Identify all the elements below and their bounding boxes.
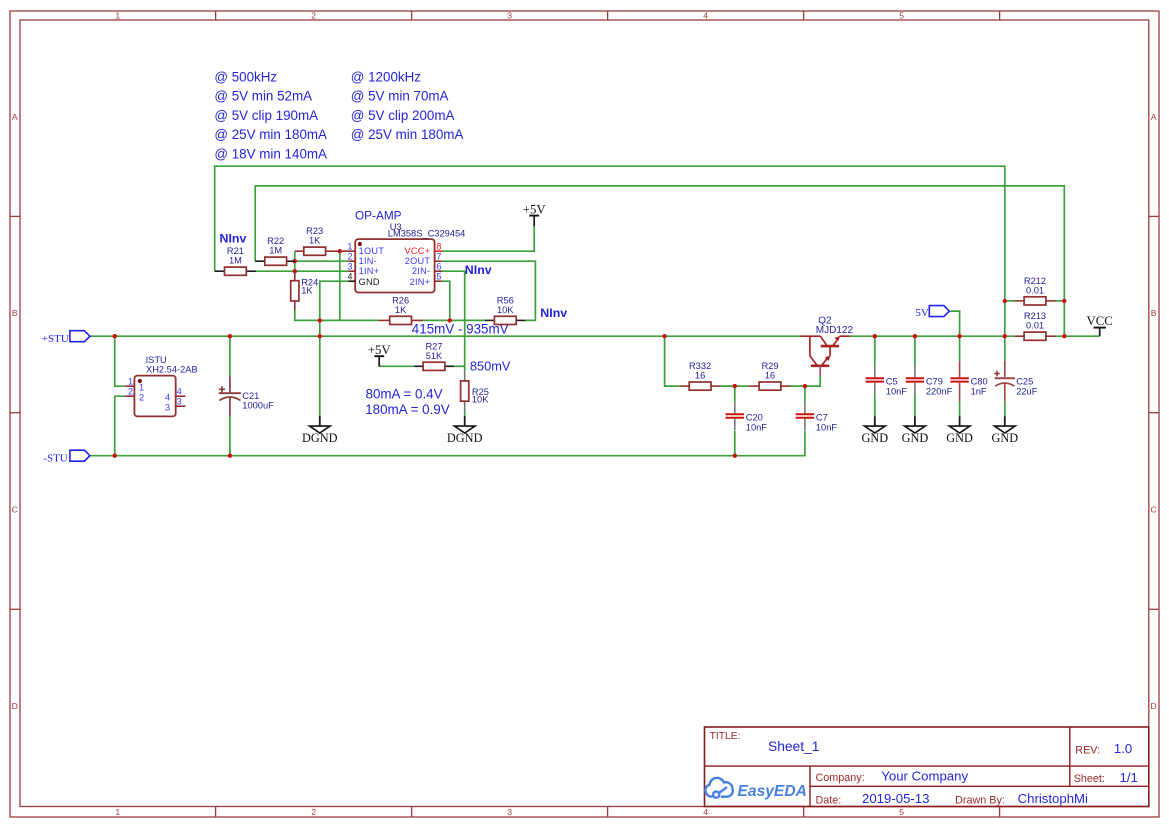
- resistor R25: [461, 371, 490, 411]
- svg-text:GND: GND: [359, 277, 380, 287]
- svg-text:@ 5V clip 190mA: @ 5V clip 190mA: [214, 108, 318, 123]
- wire C5 leads: [874, 336, 876, 416]
- svg-text:R26: R26: [392, 295, 409, 305]
- svg-text:LM358S_C329454: LM358S_C329454: [388, 228, 466, 238]
- svg-text:2019-05-13: 2019-05-13: [862, 791, 929, 806]
- svg-text:10nF: 10nF: [886, 387, 908, 397]
- svg-text:Your Company: Your Company: [881, 769, 968, 784]
- junction +STU bus / C21: [228, 334, 232, 338]
- ground GND at x=874.8: [861, 416, 888, 445]
- U3 pin 3: [347, 261, 355, 271]
- svg-text:A: A: [1151, 112, 1157, 122]
- svg-text:R21: R21: [227, 246, 244, 256]
- resistor R22: [255, 236, 295, 265]
- svg-text:1K: 1K: [309, 236, 321, 246]
- U3 pin names left: [359, 246, 385, 287]
- junction bus / C80 / 5V: [957, 334, 961, 338]
- U3 pin names right: [405, 246, 431, 287]
- svg-text:1IN-: 1IN-: [359, 256, 377, 266]
- svg-text:22uF: 22uF: [1016, 387, 1038, 397]
- svg-text:220nF: 220nF: [926, 387, 953, 397]
- junction R332/R29/C20 node: [733, 384, 737, 388]
- wire main bus right of Q2: [850, 335, 1015, 337]
- ISTU pin 1: [125, 376, 144, 392]
- junction R21/R24 node: [293, 269, 297, 273]
- svg-text:3: 3: [177, 396, 182, 406]
- wire R24 bottom to R26: [295, 310, 378, 320]
- U3 designator labels: [388, 222, 466, 239]
- wire pin1 feedback vertical: [339, 251, 341, 320]
- svg-text:@ 5V min 52mA: @ 5V min 52mA: [214, 89, 312, 104]
- svg-text:16: 16: [695, 371, 705, 381]
- svg-text:R22: R22: [267, 236, 284, 246]
- svg-text:180mA = 0.9V: 180mA = 0.9V: [365, 402, 450, 417]
- title block Company: [816, 769, 969, 784]
- svg-text:R56: R56: [497, 295, 514, 305]
- U3 pin 4: [347, 271, 355, 281]
- U3 pin 2: [347, 251, 355, 261]
- resistor R213: [1014, 311, 1055, 340]
- svg-text:4: 4: [703, 11, 708, 21]
- svg-text:5V: 5V: [915, 307, 929, 319]
- svg-text:VCC: VCC: [1087, 314, 1113, 328]
- svg-text:MJD122: MJD122: [816, 325, 854, 336]
- wire R332 to R29: [721, 385, 750, 387]
- wire pin5 wire: [442, 281, 450, 320]
- svg-text:10nF: 10nF: [746, 423, 768, 433]
- wire ISTU pin2 wire: [115, 396, 126, 456]
- capacitor C5: [866, 366, 908, 397]
- junction R24-R26 wire / GND branch: [318, 318, 322, 322]
- resistor R23: [295, 226, 340, 255]
- net flag +STU: [42, 331, 90, 346]
- svg-text:1: 1: [115, 11, 120, 21]
- capacitor C20: [726, 402, 768, 433]
- junction R212 left node: [1003, 299, 1007, 303]
- svg-text:@ 25V min 180mA: @ 25V min 180mA: [214, 127, 327, 142]
- wire C80 leads: [959, 336, 961, 416]
- svg-text:2: 2: [311, 11, 316, 21]
- svg-text:1: 1: [115, 807, 120, 817]
- ISTU designator labels: [146, 355, 198, 374]
- svg-text:GND: GND: [991, 431, 1018, 445]
- ground GND at x=959.6: [946, 416, 973, 445]
- capacitor C80: [950, 361, 987, 402]
- junction +STU bus / ISTU pin1: [113, 334, 117, 338]
- svg-text:C: C: [12, 505, 18, 515]
- junction bus / R213 right: [1062, 334, 1066, 338]
- svg-text:C7: C7: [816, 413, 828, 423]
- svg-text:2: 2: [128, 386, 133, 396]
- svg-text:@ 18V min 140mA: @ 18V min 140mA: [214, 146, 327, 161]
- wire C21 leads: [229, 336, 231, 456]
- ground GND at x=914.9: [902, 416, 929, 445]
- wire R27 to R25 node: [454, 365, 465, 367]
- svg-text:R213: R213: [1024, 311, 1046, 321]
- ground GND at x=1004.8: [991, 416, 1018, 445]
- ISTU pin 4: [165, 386, 185, 402]
- U3 pin 7: [435, 251, 442, 261]
- svg-text:3: 3: [507, 11, 512, 21]
- svg-text:XH2.54-2AB: XH2.54-2AB: [146, 365, 198, 375]
- resistor R24: [291, 271, 319, 310]
- svg-text:GND: GND: [946, 431, 973, 445]
- resistor R21: [215, 246, 256, 275]
- net flag 5V: [915, 306, 949, 319]
- capacitor C7: [796, 402, 838, 433]
- svg-text:5: 5: [436, 271, 441, 281]
- svg-text:R23: R23: [306, 226, 323, 236]
- wire -STU bus: [90, 431, 805, 456]
- svg-text:1M: 1M: [229, 256, 242, 266]
- wire R212 right: [1056, 300, 1065, 302]
- wire R212 left: [1005, 300, 1015, 302]
- svg-text:C79: C79: [926, 377, 943, 387]
- svg-text:10K: 10K: [497, 305, 514, 315]
- U3 pin 1: [340, 241, 355, 251]
- svg-text:2: 2: [139, 392, 144, 402]
- wire pin6 to 850mV node: [442, 271, 465, 371]
- svg-text:4: 4: [347, 271, 352, 281]
- junction -STU bus / C21: [228, 454, 232, 458]
- svg-text:VCC+: VCC+: [405, 246, 431, 256]
- resistor R27: [414, 341, 454, 370]
- wire R21 to pin3: [256, 270, 348, 272]
- svg-text:@ 5V min 70mA: @ 5V min 70mA: [351, 89, 449, 104]
- svg-text:DGND: DGND: [447, 431, 483, 445]
- wire inner loop to R212/R213: [255, 186, 1064, 336]
- wire pin4 GND to DGND: [320, 281, 349, 416]
- svg-text:Company:: Company:: [816, 772, 865, 784]
- wire ISTU pin1 wire: [115, 336, 126, 386]
- wire R26 to R56: [423, 319, 485, 321]
- junction -STU bus / ISTU pin2: [113, 454, 117, 458]
- svg-text:4: 4: [703, 807, 708, 817]
- title block TITLE: [710, 731, 820, 754]
- svg-text:1: 1: [128, 376, 133, 386]
- U3 pin 5: [435, 271, 442, 281]
- svg-text:1OUT: 1OUT: [359, 246, 385, 256]
- svg-text:EasyEDA: EasyEDA: [738, 783, 807, 800]
- ISTU pin 3: [165, 396, 185, 412]
- svg-text:@ 1200kHz: @ 1200kHz: [351, 70, 421, 85]
- svg-text:1: 1: [139, 382, 144, 392]
- svg-text:1: 1: [347, 241, 352, 251]
- svg-text:4: 4: [177, 386, 182, 396]
- wire R29 to Q2 emitter: [791, 376, 821, 386]
- op-amp U3 LM358S_C329454 body: [355, 239, 434, 292]
- svg-text:6: 6: [436, 261, 441, 271]
- ground DGND at x=464.7: [447, 416, 483, 445]
- wire 5V flag wire: [950, 311, 959, 336]
- wire C25 bottom: [1004, 401, 1006, 416]
- svg-text:5: 5: [899, 11, 904, 21]
- svg-text:-STU: -STU: [43, 453, 68, 465]
- wire C20 bottom: [734, 431, 736, 456]
- wire main bus to VCC: [1056, 335, 1100, 337]
- wire C20 top: [734, 386, 736, 402]
- wire outer feedback loop NInv: [215, 166, 1005, 361]
- svg-text:16: 16: [765, 371, 775, 381]
- svg-text:51K: 51K: [426, 351, 443, 361]
- svg-text:TITLE:: TITLE:: [710, 731, 741, 742]
- svg-text:C5: C5: [886, 377, 898, 387]
- frame column ticks top/bottom: [216, 11, 1000, 817]
- svg-text:C21: C21: [242, 391, 259, 401]
- svg-text:1K: 1K: [301, 286, 313, 296]
- U3 pin 6: [435, 261, 442, 271]
- svg-text:REV:: REV:: [1075, 745, 1100, 757]
- capacitor C25 22uF polarized: [994, 361, 1038, 401]
- resistor R332: [680, 361, 721, 390]
- resistor R56: [485, 295, 526, 324]
- wire R23 left vertical: [294, 251, 296, 271]
- svg-text:80mA = 0.4V: 80mA = 0.4V: [366, 386, 443, 401]
- wire C7 top: [804, 386, 806, 402]
- svg-text:ChristophMi: ChristophMi: [1018, 791, 1088, 806]
- svg-text:10K: 10K: [472, 395, 489, 405]
- resistor R29: [749, 361, 790, 390]
- wire +5V to R27: [379, 365, 414, 367]
- junction +STU bus / DGND branch: [318, 334, 322, 338]
- svg-text:C80: C80: [971, 377, 988, 387]
- svg-text:2: 2: [311, 807, 316, 817]
- svg-text:0.01: 0.01: [1026, 285, 1044, 295]
- svg-text:@ 5V clip 200mA: @ 5V clip 200mA: [351, 108, 455, 123]
- wire pin7 loop to R56: [442, 261, 536, 320]
- svg-text:Drawn By:: Drawn By:: [955, 795, 1005, 807]
- svg-text:8: 8: [436, 241, 441, 251]
- U3 pin 8: [435, 241, 442, 251]
- title block Sheet: [1074, 770, 1138, 785]
- svg-text:@ 500kHz: @ 500kHz: [214, 70, 277, 85]
- frame row ticks left/right: [10, 216, 1159, 609]
- junction bus / C25 / R213: [1003, 334, 1007, 338]
- wire C79 leads: [914, 336, 916, 416]
- svg-text:NInv: NInv: [465, 263, 492, 277]
- svg-text:3: 3: [165, 402, 170, 412]
- svg-text:GND: GND: [902, 431, 929, 445]
- svg-text:R332: R332: [689, 361, 711, 371]
- svg-text:0.01: 0.01: [1026, 321, 1044, 331]
- resistor R212: [1014, 276, 1055, 305]
- junction R26-R56 wire / pin5: [448, 318, 452, 322]
- svg-text:D: D: [12, 701, 18, 711]
- net flag -STU: [43, 450, 90, 465]
- wire R22 to pin2: [295, 260, 349, 262]
- svg-text:5: 5: [899, 807, 904, 817]
- svg-text:1/1: 1/1: [1120, 770, 1138, 785]
- svg-text:+STU: +STU: [42, 333, 69, 345]
- svg-text:2: 2: [347, 251, 352, 261]
- title block REV: [1075, 741, 1132, 756]
- power flag +5V at x=379.2: [368, 343, 392, 367]
- svg-text:1nF: 1nF: [971, 387, 987, 397]
- svg-text:10nF: 10nF: [816, 423, 838, 433]
- wire main +STU bus left: [90, 335, 800, 337]
- junction R23 / pin1 node: [338, 249, 342, 253]
- svg-text:4: 4: [165, 393, 170, 403]
- svg-text:850mV: 850mV: [470, 358, 511, 373]
- svg-text:A: A: [12, 112, 18, 122]
- junction R22/R23 node: [293, 259, 297, 263]
- svg-text:R212: R212: [1024, 276, 1046, 286]
- svg-text:C20: C20: [746, 413, 763, 423]
- transistor Q2 MJD122: [800, 315, 853, 376]
- svg-text:GND: GND: [861, 431, 888, 445]
- svg-text:NInv: NInv: [220, 231, 247, 245]
- svg-text:C25: C25: [1016, 377, 1033, 387]
- svg-text:OP-AMP: OP-AMP: [355, 209, 402, 223]
- svg-text:R29: R29: [761, 361, 778, 371]
- power flag VCC: [1087, 314, 1113, 336]
- svg-text:@ 25V min 180mA: @ 25V min 180mA: [351, 127, 464, 142]
- svg-text:+5V: +5V: [368, 343, 392, 357]
- svg-text:R27: R27: [425, 341, 442, 351]
- wire R25 to DGND: [464, 411, 466, 416]
- svg-text:Date:: Date:: [816, 794, 842, 806]
- svg-text:3: 3: [347, 261, 352, 271]
- svg-text:2IN-: 2IN-: [412, 266, 430, 276]
- svg-text:B: B: [1151, 308, 1157, 318]
- svg-text:1M: 1M: [269, 246, 282, 256]
- junction R29/C7/Q2 emitter node: [803, 384, 807, 388]
- svg-text:Sheet_1: Sheet_1: [768, 739, 819, 754]
- ground DGND at x=319.8: [302, 416, 338, 445]
- svg-text:1IN+: 1IN+: [359, 266, 380, 276]
- svg-text:3: 3: [507, 807, 512, 817]
- svg-text:1000uF: 1000uF: [242, 401, 274, 411]
- svg-text:C: C: [1150, 505, 1156, 515]
- capacitor C79: [906, 366, 953, 397]
- EasyEDA logo: [705, 778, 806, 800]
- svg-text:2OUT: 2OUT: [405, 256, 431, 266]
- junction R212 right node: [1062, 299, 1066, 303]
- wire branch to R332: [665, 336, 680, 386]
- svg-text:NInv: NInv: [540, 306, 567, 320]
- svg-text:7: 7: [436, 251, 441, 261]
- svg-text:Sheet:: Sheet:: [1074, 773, 1105, 785]
- svg-text:2IN+: 2IN+: [410, 277, 431, 287]
- svg-text:+5V: +5V: [523, 203, 547, 217]
- title block Date / Drawn By: [816, 791, 1089, 806]
- power flag +5V at x=534.2: [523, 203, 547, 227]
- capacitor C21 1000uF polarized: [219, 376, 274, 416]
- svg-text:D: D: [1150, 701, 1156, 711]
- junction -STU bus / C20: [733, 454, 737, 458]
- svg-text:B: B: [12, 308, 18, 318]
- junction +STU bus / R332 branch: [662, 334, 666, 338]
- resistor R26: [378, 295, 423, 324]
- wire pin8 to +5V: [442, 226, 534, 251]
- title block: [705, 727, 1149, 807]
- svg-text:DGND: DGND: [302, 431, 338, 445]
- ISTU pin 2: [125, 386, 144, 402]
- junction bus / C5: [873, 334, 877, 338]
- connector ISTU XH2.54-2AB body: [134, 376, 175, 417]
- junction bus / C79: [913, 334, 917, 338]
- svg-text:1.0: 1.0: [1114, 741, 1132, 756]
- svg-text:1K: 1K: [395, 305, 407, 315]
